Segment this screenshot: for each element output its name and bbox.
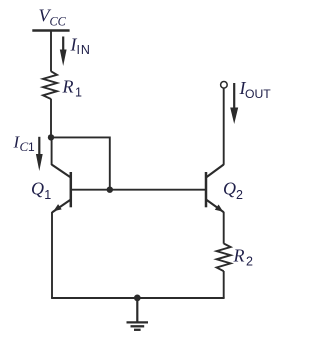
wire base Q1 to base Q2 xyxy=(71,189,206,191)
svg-text:R: R xyxy=(62,76,74,96)
label I_IN xyxy=(70,35,91,57)
svg-text:Q: Q xyxy=(31,179,44,199)
base node junction dot xyxy=(107,187,113,193)
output terminal circle xyxy=(221,82,228,89)
arrow I_IN xyxy=(60,37,67,67)
svg-text:1: 1 xyxy=(75,86,82,100)
node A junction dot xyxy=(48,134,54,140)
svg-text:Q: Q xyxy=(223,179,236,199)
wire Q1 emitter down to ground rail xyxy=(51,212,53,298)
Q2 emitter arrowhead xyxy=(215,205,223,212)
ground node junction dot xyxy=(134,295,141,302)
wire Q2 emitter to R2 top xyxy=(223,212,225,244)
Q1 emitter arrowhead xyxy=(53,204,61,211)
wire R2 bottom to ground rail xyxy=(223,271,225,298)
label I_OUT xyxy=(239,78,272,101)
label V_CC xyxy=(39,6,67,29)
label I_C1 xyxy=(13,132,36,154)
arrow I_OUT xyxy=(230,83,238,124)
transistor Q2 xyxy=(206,165,224,213)
wire R1 bottom to node A xyxy=(50,99,52,138)
resistor R1 xyxy=(43,71,57,99)
resistor R2 xyxy=(217,244,231,272)
ground xyxy=(127,298,149,330)
svg-text:2: 2 xyxy=(246,255,253,269)
wire Q2 collector to output terminal xyxy=(223,89,225,165)
VCC supply bar xyxy=(32,29,69,32)
transistor Q1 xyxy=(52,165,71,213)
svg-text:CC: CC xyxy=(50,14,67,28)
label R2 xyxy=(233,246,254,269)
svg-text:2: 2 xyxy=(236,188,243,202)
label Q1 xyxy=(31,179,51,202)
svg-text:OUT: OUT xyxy=(245,87,271,101)
wire VCC bar to R1 top xyxy=(50,32,52,72)
label R1 xyxy=(62,76,83,99)
svg-text:R: R xyxy=(233,246,245,266)
svg-text:1: 1 xyxy=(28,140,35,154)
wire Q1 collector up to node A xyxy=(51,137,53,165)
wire ground rail xyxy=(51,297,225,299)
wire loop node A to base node (diode connection) xyxy=(51,137,110,189)
arrow I_C1 xyxy=(36,137,43,171)
svg-text:IN: IN xyxy=(77,43,91,57)
label Q2 xyxy=(223,179,243,202)
svg-text:1: 1 xyxy=(44,188,51,202)
